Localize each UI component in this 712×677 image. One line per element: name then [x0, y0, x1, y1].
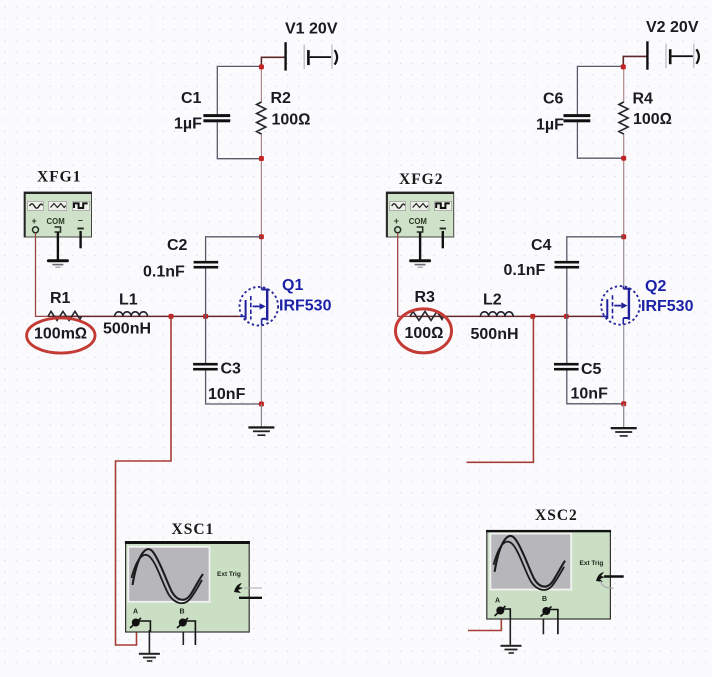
- XSC2 A label: [495, 598, 500, 605]
- capacitor C2: [194, 261, 219, 269]
- ground Q1: [248, 404, 274, 436]
- XSC1 Ext Trig label: [217, 571, 241, 578]
- main horizontal wire: [48, 315, 240, 317]
- resistor R1: [48, 311, 82, 320]
- label Q1: [282, 277, 303, 294]
- svg-text:1µF: 1µF: [536, 117, 564, 134]
- label 1uF: [174, 116, 202, 133]
- label V1 20V: [285, 21, 338, 38]
- wire to scope XSC2 lower: [468, 618, 501, 631]
- svg-text:+: +: [394, 216, 399, 226]
- junction dot source: [259, 402, 264, 407]
- wire main vertical upper right: [623, 67, 625, 287]
- ground Q2: [611, 404, 637, 437]
- wire to scope XSC2 upper: [467, 316, 534, 462]
- label IRF530 Q2: [641, 298, 694, 315]
- XFG1 terminal labels: [32, 216, 84, 227]
- svg-text:100mΩ: 100mΩ: [34, 326, 87, 343]
- wire Q1 source down: [260, 326, 262, 405]
- label C4: [531, 237, 552, 254]
- junction dots main wire right: [530, 314, 569, 319]
- label Q2: [645, 278, 666, 295]
- capacitor C6 branch wires: [577, 66, 623, 158]
- XSC1 pin A: [130, 618, 150, 654]
- capacitor C4 branch wires: [567, 237, 624, 317]
- svg-text:B: B: [542, 596, 547, 603]
- label 100ohm: [272, 112, 311, 129]
- XSC2 box: [486, 530, 611, 619]
- ground XSC2: [501, 645, 522, 654]
- svg-text:C2: C2: [167, 237, 188, 254]
- svg-text:C1: C1: [181, 90, 202, 107]
- label 500nH: [103, 321, 151, 338]
- svg-text:Q2: Q2: [645, 278, 666, 295]
- resistor R4: [619, 102, 628, 134]
- mosfet Q2 circle: [601, 286, 640, 325]
- XSC2 Ext Trig label: [580, 560, 604, 567]
- svg-text:R3: R3: [415, 289, 436, 306]
- LEFT HALF: [24, 21, 338, 662]
- svg-text:500nH: 500nH: [471, 326, 519, 343]
- label L2: [483, 292, 502, 309]
- capacitor C6: [564, 114, 591, 122]
- XFG2 COM ground: [409, 232, 431, 268]
- svg-text:B: B: [180, 609, 185, 616]
- label 500nH L2: [471, 326, 519, 343]
- svg-text:A: A: [133, 609, 138, 616]
- svg-text:Q1: Q1: [282, 277, 303, 294]
- label C5: [581, 361, 602, 378]
- svg-text:10nF: 10nF: [208, 386, 246, 403]
- svg-text:10nF: 10nF: [571, 386, 609, 403]
- svg-text:R4: R4: [633, 91, 654, 108]
- resistor R2: [257, 102, 266, 134]
- capacitor C2 branch wires: [206, 237, 262, 317]
- XFG1 label: [37, 169, 81, 186]
- label 10nF C5: [571, 386, 609, 403]
- XSC1 box: [125, 541, 250, 632]
- battery V1: [284, 42, 337, 70]
- inductor L1: [115, 312, 148, 317]
- annotation red ellipse R3: [396, 309, 452, 353]
- XFG2 box: [386, 192, 453, 237]
- wire battery V2 to main node: [623, 56, 647, 67]
- label R2: [271, 90, 292, 107]
- svg-text:−: −: [78, 216, 83, 226]
- svg-text:100Ω: 100Ω: [405, 325, 444, 342]
- svg-text:100Ω: 100Ω: [272, 112, 311, 129]
- svg-text:COM: COM: [409, 217, 427, 226]
- wire battery V1 to main node: [261, 57, 285, 67]
- XFG2 terminals: [395, 227, 446, 233]
- wire to scope XSC1: [116, 316, 172, 645]
- battery V2: [646, 41, 699, 69]
- junction node dots main line right: [621, 64, 626, 239]
- inductor L2: [480, 312, 513, 317]
- svg-text:XFG1: XFG1: [37, 169, 81, 186]
- svg-text:A: A: [495, 598, 500, 605]
- svg-text:R1: R1: [50, 290, 71, 307]
- capacitor C3: [193, 363, 218, 371]
- capacitor C5 branch wires: [567, 316, 624, 403]
- wire XFG1 plus to R1: [36, 233, 49, 316]
- svg-text:IRF530: IRF530: [279, 298, 332, 315]
- XSC1 B label: [180, 609, 185, 616]
- svg-text:C3: C3: [221, 361, 242, 378]
- label 100ohm R4: [633, 111, 672, 128]
- svg-text:Ext Trig: Ext Trig: [217, 571, 241, 578]
- XSC2 screen: [490, 534, 571, 590]
- svg-text:−: −: [440, 216, 445, 226]
- label L1: [119, 292, 138, 309]
- wire main vertical upper: [260, 67, 262, 287]
- svg-text:IRF530: IRF530: [641, 298, 694, 315]
- label C6: [543, 91, 564, 108]
- svg-text:0.1nF: 0.1nF: [143, 264, 185, 281]
- mosfet Q1 symbol: [240, 287, 267, 325]
- wire XFG2 plus to R3: [398, 233, 410, 316]
- capacitor C3 branch wires: [206, 316, 262, 404]
- label R1: [50, 290, 71, 307]
- XSC2 ext trig pin: [596, 572, 624, 588]
- junction node dots main line: [259, 64, 264, 239]
- svg-text:+: +: [32, 216, 37, 226]
- label 1uF C6: [536, 117, 564, 134]
- XFG1 terminals: [33, 227, 84, 233]
- main horizontal wire right: [410, 315, 602, 317]
- svg-text:V1 20V: V1 20V: [285, 21, 338, 38]
- RIGHT HALF: [386, 19, 699, 654]
- label V2 20V: [646, 19, 699, 36]
- XFG1 minus stub: [79, 231, 81, 248]
- XSC1 screen: [128, 547, 209, 603]
- label 0.1nF: [143, 264, 185, 281]
- svg-text:R2: R2: [271, 90, 292, 107]
- label C3: [221, 361, 242, 378]
- XSC1 A label: [133, 609, 138, 616]
- XSC1 label: [172, 521, 215, 538]
- svg-text:XSC2: XSC2: [535, 507, 578, 524]
- XSC2 pin B: [541, 607, 558, 635]
- XSC2 pin A: [495, 606, 511, 645]
- capacitor C1: [203, 114, 230, 122]
- XSC1 pin B: [177, 618, 195, 645]
- XFG2 label: [399, 171, 443, 188]
- label 0.1nF C4: [504, 262, 546, 279]
- svg-text:C6: C6: [543, 91, 564, 108]
- XFG1 box: [24, 192, 91, 237]
- capacitor C4: [555, 261, 580, 269]
- svg-text:0.1nF: 0.1nF: [504, 262, 546, 279]
- XFG2 minus stub: [442, 231, 444, 248]
- XFG1 COM ground: [47, 232, 69, 268]
- wire Q2 source down: [623, 325, 625, 404]
- junction dot source Q2: [621, 401, 626, 406]
- XFG2 waveform buttons: [390, 202, 452, 211]
- XSC2 label: [535, 507, 578, 524]
- XFG1 waveform buttons: [28, 202, 90, 211]
- label R3: [415, 289, 436, 306]
- XFG2 terminal labels: [394, 216, 446, 227]
- capacitor C5: [554, 363, 579, 371]
- label IRF530: [279, 298, 332, 315]
- ground XSC1: [139, 653, 160, 662]
- svg-text:L1: L1: [119, 292, 138, 309]
- svg-text:L2: L2: [483, 292, 502, 309]
- svg-text:Ext Trig: Ext Trig: [580, 560, 604, 567]
- svg-text:100Ω: 100Ω: [633, 111, 672, 128]
- label C1: [181, 90, 202, 107]
- capacitor C1 branch wires: [217, 66, 261, 158]
- XSC2 B label: [542, 596, 547, 603]
- junction dots main wire: [169, 314, 209, 319]
- svg-text:1µF: 1µF: [174, 116, 202, 133]
- svg-text:C4: C4: [531, 237, 552, 254]
- svg-text:C5: C5: [581, 361, 602, 378]
- svg-text:XFG2: XFG2: [399, 171, 443, 188]
- label 100mohm: [34, 326, 87, 343]
- svg-text:V2 20V: V2 20V: [646, 19, 699, 36]
- svg-text:COM: COM: [47, 217, 65, 226]
- label 10nF: [208, 386, 246, 403]
- svg-text:XSC1: XSC1: [172, 521, 215, 538]
- label C2: [167, 237, 188, 254]
- annotation red ellipse R1: [27, 318, 95, 353]
- mosfet Q2 symbol: [602, 286, 629, 324]
- svg-text:500nH: 500nH: [103, 321, 151, 338]
- XSC1 ext trig pin: [234, 583, 262, 598]
- mosfet Q1 circle: [239, 287, 278, 326]
- label 100ohm R3: [405, 325, 444, 342]
- label R4: [633, 91, 654, 108]
- resistor R3: [410, 311, 444, 320]
